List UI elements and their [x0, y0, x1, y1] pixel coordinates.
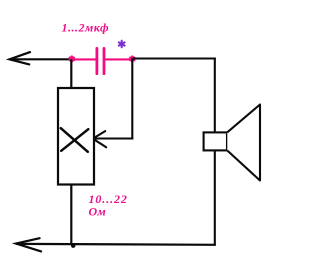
wire right vertical from node B down: [131, 58, 133, 139]
node B junction dot: [129, 55, 136, 62]
wire top-left horizontal: [10, 58, 73, 60]
wire speaker vertical top: [214, 58, 216, 134]
capacitor right plate: [103, 47, 106, 75]
speaker BA1 magnet body: [204, 132, 227, 150]
wire capsule bottom down: [70, 185, 72, 245]
arrow head pointing at capsule: [93, 131, 106, 147]
speaker cone: [227, 105, 260, 181]
bottom junction dot: [71, 244, 75, 248]
wire junction A to capacitor left plate: [72, 58, 96, 60]
capacitor left plate: [96, 47, 99, 75]
wire speaker vertical bottom: [214, 150, 216, 245]
wire node A down to capsule top: [70, 59, 72, 89]
wire horizontal into capsule: [94, 137, 133, 139]
capsule X mark: [61, 128, 89, 152]
wire capacitor right plate to junction B: [105, 58, 133, 60]
wire bottom horizontal: [16, 243, 216, 246]
wire top-right horizontal: [133, 57, 216, 59]
arrow head top-left output: [10, 52, 31, 64]
svg-text:Ом: Ом: [89, 204, 107, 218]
svg-text:1...2мкф: 1...2мкф: [62, 21, 110, 35]
arrow head bottom-left output: [16, 238, 41, 251]
asterisk marker: [119, 41, 125, 48]
telephone capsule B1 body: [58, 88, 94, 185]
node A junction dot: [69, 55, 75, 62]
